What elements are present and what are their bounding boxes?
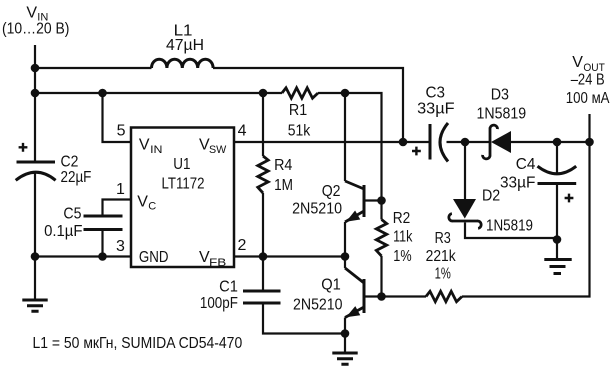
svg-text:4: 4 [238, 122, 247, 139]
svg-text:SW: SW [209, 144, 227, 156]
junction D2 anode node [461, 138, 470, 147]
junction C4 ground node [553, 235, 562, 244]
svg-text:11k: 11k [393, 229, 413, 246]
capacitor C4 plus [565, 194, 574, 203]
wire left ground stem [34, 257, 36, 301]
wire C1 top lead [262, 257, 264, 292]
svg-text:51k: 51k [288, 123, 311, 140]
wire R1 left lead [263, 92, 282, 94]
svg-text:47µH: 47µH [166, 37, 204, 54]
wire pin1 VC [103, 200, 132, 217]
svg-text:Q1: Q1 [321, 277, 341, 294]
transistor Q1 [345, 268, 382, 318]
wire D2 cathode to ground node [465, 223, 557, 239]
op-amp U1 box LT1172 [131, 128, 234, 268]
wire pin5 drop [103, 93, 132, 142]
junction Q2 base node [377, 196, 386, 205]
svg-text:1%: 1% [435, 266, 451, 283]
node VOUT [572, 54, 605, 74]
svg-text:3: 3 [116, 238, 125, 255]
junction emitter ground node [341, 329, 350, 338]
pin label VIN [139, 137, 163, 156]
resistor R2 [376, 220, 386, 257]
svg-text:33µF: 33µF [417, 101, 455, 118]
wire R4 branch from rail [262, 93, 264, 156]
resistor R1 [282, 88, 318, 98]
pin label VSW [199, 137, 227, 157]
svg-text:(10…20 В): (10…20 В) [2, 20, 69, 37]
svg-text:Q2: Q2 [322, 183, 341, 200]
junction output corner [585, 138, 594, 147]
svg-text:C2: C2 [61, 154, 79, 171]
pin label VC [137, 193, 156, 212]
svg-text:FB: FB [209, 257, 226, 269]
wire ground line [35, 255, 131, 257]
wire R4 bottom lead [262, 193, 264, 257]
wire Q1 collector [344, 257, 346, 269]
node VIN [26, 5, 48, 24]
junction VIN top rail [31, 64, 40, 73]
svg-text:C: C [148, 201, 156, 213]
svg-text:V: V [26, 5, 37, 22]
diode D3 1N5819 schottky [483, 125, 511, 159]
svg-text:LT1172: LT1172 [162, 175, 205, 192]
svg-text:V: V [139, 137, 150, 154]
svg-text:GND: GND [139, 249, 169, 266]
svg-text:R4: R4 [274, 157, 292, 174]
wire C5 to ground line [101, 230, 103, 257]
svg-text:100pF: 100pF [200, 295, 238, 312]
svg-text:C5: C5 [63, 206, 81, 223]
svg-text:L1 = 50 мкГн, SUMIDA CD54-470: L1 = 50 мкГн, SUMIDA CD54-470 [33, 335, 243, 352]
capacitor C3 plus [412, 147, 421, 156]
wire R1 right to Q2 base drop [345, 93, 382, 201]
wire Q1 emitter [344, 318, 346, 334]
junction C4 top [553, 138, 562, 147]
wire R2 top lead [380, 201, 382, 220]
resistor R3 [426, 291, 462, 301]
svg-text:0.1µF: 0.1µF [44, 223, 83, 240]
capacitor C1 [243, 291, 281, 303]
svg-text:D2: D2 [482, 188, 500, 205]
svg-text:U1: U1 [173, 156, 190, 173]
capacitor C2 [16, 162, 56, 180]
pin label VFB [199, 249, 226, 269]
svg-text:–24 В: –24 В [571, 72, 605, 89]
svg-text:R3: R3 [435, 230, 451, 247]
ground middle [332, 353, 357, 364]
wire D3 to output node [511, 141, 590, 143]
capacitor C3 [430, 123, 448, 162]
svg-text:C4: C4 [516, 156, 536, 173]
junction R1 left [259, 89, 268, 98]
svg-text:2N5210: 2N5210 [292, 200, 342, 217]
svg-text:22µF: 22µF [61, 169, 92, 186]
svg-text:D3: D3 [491, 86, 509, 103]
svg-text:V: V [137, 193, 148, 210]
resistor R4 [258, 156, 268, 193]
svg-text:1%: 1% [393, 248, 411, 265]
inductor L1 [152, 59, 214, 68]
wire R1 right lead [318, 92, 345, 94]
svg-text:C3: C3 [426, 85, 446, 102]
capacitor C4 [538, 166, 577, 183]
svg-text:1: 1 [116, 181, 125, 198]
junction switch node [399, 138, 408, 147]
wire second rail [35, 92, 263, 94]
wire VFB pin2 line [234, 255, 345, 257]
wire Q2 collector [344, 93, 346, 181]
junction VIN second rail [31, 89, 40, 98]
svg-text:R1: R1 [289, 102, 307, 119]
svg-text:1N5819: 1N5819 [477, 105, 527, 122]
junction Q1 base node [377, 292, 386, 301]
svg-text:1N5819: 1N5819 [486, 217, 533, 234]
junction C5 bottom [98, 252, 107, 261]
wire C4 top lead [556, 142, 558, 173]
ground left [22, 300, 47, 311]
wire switch node to C3 [403, 141, 429, 143]
wire C3 to D3 node [447, 141, 490, 143]
junction ground line left [31, 252, 40, 261]
wire top rail to L1 [35, 67, 152, 69]
wire C2 to ground line [34, 174, 36, 257]
svg-text:C1: C1 [219, 278, 238, 295]
ground right [544, 260, 571, 274]
wire C4 bottom lead [556, 184, 558, 240]
capacitor C2 plus [19, 143, 28, 152]
junction Q2 emitter VFB [341, 252, 350, 261]
svg-text:IN: IN [150, 144, 162, 156]
wire VIN rail vertical [34, 45, 36, 162]
svg-text:2: 2 [238, 237, 247, 254]
transistor Q2 [345, 181, 382, 222]
diode D2 1N5819 schottky [449, 199, 481, 228]
wire top rail L1 to switch node corner [213, 68, 403, 142]
wire R3 to output rail [462, 114, 590, 297]
wire C1 bottom to emitter node [263, 303, 345, 334]
capacitor C5 [84, 216, 123, 230]
svg-text:221k: 221k [426, 248, 457, 265]
wire base line to R3 [382, 295, 427, 297]
svg-text:V: V [572, 54, 583, 71]
svg-text:100 мА: 100 мА [566, 90, 610, 107]
svg-text:1M: 1M [274, 177, 293, 194]
wire D2 anode lead [464, 142, 466, 199]
svg-text:R2: R2 [393, 210, 411, 227]
svg-text:2N5210: 2N5210 [293, 296, 343, 313]
wire right ground stem [556, 240, 558, 260]
svg-text:5: 5 [117, 122, 126, 139]
wire middle ground stem [344, 334, 346, 354]
junction pin5 drop [98, 89, 107, 98]
junction R4 bottom VFB [259, 252, 268, 261]
wire VSW pin4 line [234, 141, 403, 143]
wire R2 bottom lead [380, 256, 382, 297]
svg-text:33µF: 33µF [500, 174, 536, 191]
junction R1 right [341, 89, 350, 98]
wire Q2 emitter to VFB [344, 222, 346, 257]
